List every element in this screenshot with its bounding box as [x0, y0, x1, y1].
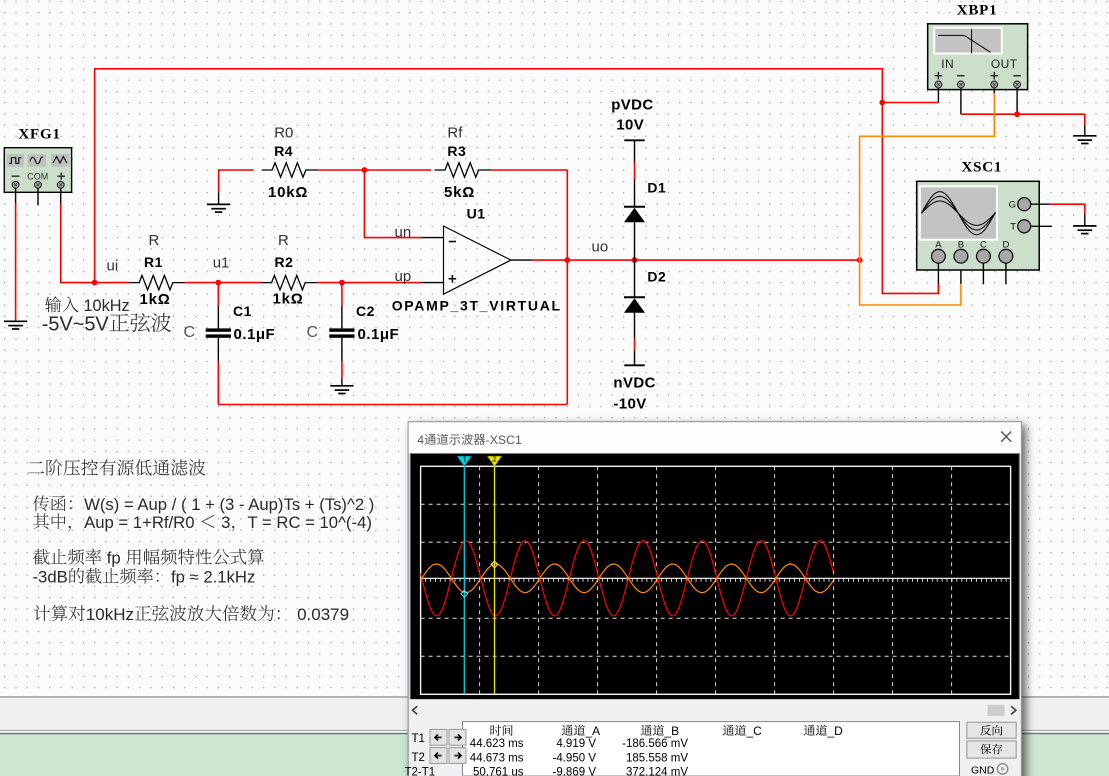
svg-text:fp: fp [107, 548, 121, 567]
wire XSC1 A lead [937, 263, 939, 284]
wire branch to XBP1 IN+ [882, 102, 938, 104]
wire node down to C2 [341, 283, 343, 306]
T1 right button [449, 729, 466, 745]
wire C2 ground stub [341, 378, 343, 386]
wire XFG1 COM stub [37, 188, 39, 205]
annotation: Aup condition line [33, 513, 71, 531]
XBP1 terminal IN- [958, 81, 965, 88]
scrollbar right arrow [1011, 706, 1016, 714]
svg-text:4: 4 [417, 433, 424, 447]
wire XSC1 C stub [982, 263, 984, 284]
wire XFG1 plus to node ui [61, 203, 95, 283]
capacitor C1 [206, 306, 231, 362]
window title bar [409, 422, 1021, 453]
svg-text:C: C [980, 239, 987, 250]
svg-text:-186.566 mV: -186.566 mV [622, 738, 688, 750]
status bar divider [0, 729, 1109, 731]
svg-text:0.1μF: 0.1μF [358, 326, 400, 343]
scope display area [410, 454, 1019, 700]
wire op-amp plus input lead [421, 282, 444, 284]
svg-text:G: G [1009, 200, 1016, 211]
svg-text:Rf: Rf [447, 124, 463, 141]
resistor R1 [129, 275, 185, 289]
wire XBP1 OUT+ lead [993, 88, 995, 93]
svg-text:_D: _D [827, 724, 844, 738]
svg-text:R0: R0 [274, 124, 293, 141]
wire pVDC to D1 [634, 162, 636, 179]
wire XSC1 D stub [1005, 263, 1007, 284]
svg-text:1kΩ: 1kΩ [140, 291, 171, 308]
window close button [1001, 432, 1011, 442]
svg-text:50.761 us: 50.761 us [473, 767, 524, 776]
svg-text:-5V~5V: -5V~5V [42, 314, 110, 336]
scrollbar thumb [988, 705, 1005, 716]
svg-text:T = RC = 10^(-4): T = RC = 10^(-4) [248, 513, 372, 532]
svg-text:R1: R1 [144, 254, 163, 270]
wire R3 to feedback column [491, 169, 568, 171]
svg-text:44.623 ms: 44.623 ms [470, 738, 524, 750]
svg-text:R4: R4 [274, 143, 293, 159]
button 反向 [967, 722, 1016, 738]
resistor R3 (Rf) [435, 163, 491, 177]
svg-text:IN: IN [941, 57, 954, 71]
wire node un to R3 [364, 169, 431, 171]
XSC1 terminal G [1018, 198, 1031, 211]
wire op-amp minus input lead [422, 237, 444, 239]
svg-text:185.558 mV: 185.558 mV [626, 753, 688, 765]
ground (XSC1 G) [1073, 226, 1096, 234]
wire R4 ground stub [218, 192, 220, 204]
function generator XFG1 [4, 148, 71, 193]
svg-text:372.124 mV: 372.124 mV [626, 767, 688, 776]
svg-text:u1: u1 [213, 254, 230, 271]
waveform channel A (red sine) [421, 541, 833, 616]
wire XFG1 minus lead [15, 188, 17, 203]
svg-text:10kHz: 10kHz [86, 605, 134, 624]
svg-text:up: up [395, 268, 412, 285]
svg-text:R2: R2 [275, 254, 294, 270]
svg-text:0.0379: 0.0379 [297, 605, 349, 624]
wire XBP1 ground stub [1084, 125, 1086, 136]
svg-text:T2: T2 [412, 752, 425, 764]
wire uo to XBP1 OUT+ and XSC1 channel B (orange) [860, 93, 995, 305]
column header 通道_A [562, 725, 585, 736]
wire node un to op-amp minus [364, 170, 421, 238]
svg-text:A: A [935, 239, 942, 250]
wire D1 cathode lead [634, 179, 636, 207]
oscilloscope XSC1 [917, 181, 1039, 270]
XBP1 terminal IN+ [935, 81, 942, 88]
wire XSC1 ground stub [1084, 215, 1086, 226]
scope graticule [421, 466, 1011, 694]
waveform channel B (orange sine) [421, 564, 833, 593]
svg-text:C: C [307, 324, 319, 341]
wire R4 left to ground [219, 170, 254, 192]
svg-text:_B: _B [664, 724, 680, 738]
svg-text:0.1μF: 0.1μF [234, 326, 276, 343]
XSC1 terminal D [999, 249, 1013, 263]
wire output to feedback column [532, 259, 568, 261]
annotation: gain at 10kHz line [34, 605, 85, 621]
wire D2 anode lead [634, 313, 636, 339]
XSC1 terminal C [977, 249, 991, 263]
wire XBP1 IN- lead [960, 88, 962, 114]
wire uo to diode node [567, 259, 634, 261]
svg-text:R3: R3 [447, 143, 466, 159]
wire XSC1 A to input net [937, 284, 939, 293]
svg-text:T: T [1010, 222, 1016, 233]
svg-text:Aup = 1+Rf/R0: Aup = 1+Rf/R0 [84, 513, 194, 532]
svg-text:XSC1: XSC1 [962, 159, 1003, 175]
annotation: input signal note line 1 [45, 296, 79, 312]
node XBP1 OUT- junction [1014, 111, 1020, 117]
T1 left button [430, 729, 447, 745]
svg-text:R: R [149, 232, 160, 249]
wire XSC1 G to ground [1049, 204, 1085, 215]
XFG1 terminal plus [57, 181, 64, 188]
svg-text:ui: ui [107, 258, 119, 275]
svg-text:GND: GND [971, 764, 995, 776]
readout values [470, 738, 689, 776]
svg-text:pVDC: pVDC [611, 96, 653, 113]
svg-text:1kΩ: 1kΩ [273, 291, 304, 308]
wire u1 to R2 [218, 282, 262, 284]
svg-text:4.919 V: 4.919 V [556, 738, 596, 750]
svg-text:C: C [184, 324, 196, 341]
svg-text:C2: C2 [356, 303, 375, 319]
column header 通道_C [723, 725, 746, 736]
capacitor C2 [329, 306, 354, 362]
svg-text:D2: D2 [647, 268, 666, 284]
svg-text:D1: D1 [647, 179, 666, 195]
wire XBP1 IN-/OUT- to ground [961, 113, 1085, 115]
annotation: transfer function line [33, 495, 72, 511]
XFG1 terminal COM [35, 181, 42, 188]
XFG1 terminal minus [12, 181, 19, 188]
svg-text:-XSC1: -XSC1 [486, 433, 522, 447]
svg-text:44.673 ms: 44.673 ms [470, 753, 524, 765]
DC source pVDC bar [624, 139, 644, 141]
svg-text:_A: _A [585, 724, 601, 738]
wire D1 anode to node [634, 222, 636, 260]
ground (C2) [330, 386, 353, 394]
svg-text:T2-T1: T2-T1 [405, 767, 436, 776]
spreadsheet view green band [0, 734, 1109, 776]
wire XFG1 plus lead [60, 188, 62, 203]
wire XSC1 B lead [960, 263, 962, 284]
svg-text:-10V: -10V [613, 396, 646, 413]
svg-text:W(s) = Aup / ( 1 + (3 - Aup)Ts: W(s) = Aup / ( 1 + (3 - Aup)Ts + (Ts)^2 … [84, 495, 374, 514]
scope scrollbar [409, 700, 1020, 719]
svg-text:uo: uo [592, 238, 609, 255]
svg-text:D: D [1002, 239, 1009, 250]
wire node to op-amp plus [342, 282, 421, 284]
XBP1 terminal OUT- [1014, 81, 1021, 88]
node up junction (C2) [339, 280, 345, 286]
cursor T2 (yellow) [487, 456, 501, 694]
annotation: cutoff frequency note [33, 549, 101, 565]
ground (R0/R4) [207, 204, 230, 212]
op-amp U1 [444, 226, 511, 294]
svg-text:XBP1: XBP1 [957, 3, 998, 19]
column header 通道_D [804, 725, 827, 736]
node at XBP1 IN+ branch [879, 100, 885, 106]
svg-text:10kΩ: 10kΩ [268, 184, 308, 201]
wire op-amp output lead [511, 259, 532, 261]
DC source nVDC bar [624, 364, 644, 366]
wire feedback right column [566, 170, 568, 405]
XBP1 terminal OUT+ [991, 81, 998, 88]
wire XSC1 T stub [1031, 225, 1052, 227]
wire uo to instruments [635, 259, 860, 261]
svg-text:10V: 10V [616, 116, 644, 133]
svg-text:C1: C1 [233, 303, 252, 319]
scrollbar left arrow [413, 706, 418, 714]
button 保存 [967, 741, 1016, 758]
node ui junction [92, 280, 98, 286]
diode D2 [624, 297, 645, 312]
svg-text:-4.950 V: -4.950 V [553, 753, 597, 765]
column header 时间 [491, 725, 513, 736]
readout panel [463, 722, 960, 776]
annotation: title 二阶压控有源低通滤波 [28, 459, 206, 475]
wire XBP1 IN+ lead [937, 88, 939, 103]
wire C1 to feedback bottom [217, 361, 219, 404]
svg-text:B: B [958, 239, 964, 250]
node diode junction [632, 257, 638, 263]
node un junction [362, 167, 368, 173]
svg-text:U1: U1 [467, 206, 486, 222]
svg-text:OUT: OUT [991, 57, 1018, 71]
wire node to D2 cathode [634, 260, 636, 297]
svg-text:COM: COM [27, 171, 48, 181]
wire XFG1 minus to ground [15, 203, 17, 321]
svg-text:nVDC: nVDC [613, 374, 655, 391]
resistor R2 [261, 275, 317, 289]
svg-text:_C: _C [746, 724, 763, 738]
wire pVDC lead [634, 140, 636, 162]
T2 left button [430, 748, 447, 764]
wire C2 to ground [341, 361, 343, 378]
svg-text:5kΩ: 5kΩ [444, 184, 475, 201]
wire down to XBP1 ground [1084, 114, 1086, 125]
node uo to XBP1/XSC1 [857, 257, 863, 263]
T2 right button [449, 748, 466, 764]
wire D2 to nVDC [634, 339, 636, 351]
wire XBP1 OUT- lead [1016, 88, 1018, 114]
wire ui to R1 [95, 282, 129, 284]
oscilloscope window 4通道示波器-XSC1 [408, 422, 1021, 776]
scope time axis [421, 578, 1011, 581]
svg-text:-3dB: -3dB [33, 567, 68, 586]
wire R2 to node up [317, 282, 342, 284]
svg-text:un: un [395, 224, 412, 241]
svg-text:10kHz: 10kHz [84, 297, 130, 315]
wire nVDC lead [634, 350, 636, 365]
svg-text:XFG1: XFG1 [18, 127, 60, 143]
svg-text:R: R [278, 232, 289, 249]
wire feedback bottom run [218, 404, 567, 406]
svg-text:3: 3 [221, 513, 230, 532]
XSC1 terminal A [932, 249, 946, 263]
schematic horizontal scrollbar band [0, 697, 1109, 729]
wire R1 to node u1 [185, 282, 219, 284]
svg-text:-9.869 V: -9.869 V [553, 767, 597, 776]
wire R4 to node un [318, 169, 365, 171]
svg-text:OPAMP_3T_VIRTUAL: OPAMP_3T_VIRTUAL [392, 297, 562, 313]
wire XSC1 G lead [1031, 203, 1049, 205]
svg-text:fp ≈ 2.1kHz: fp ≈ 2.1kHz [171, 567, 255, 586]
wire u1 down to C1 [217, 283, 219, 306]
svg-text:T1: T1 [412, 733, 425, 745]
resistor R4 (R0) [262, 163, 318, 177]
diode D1 [624, 207, 645, 222]
ground (XBP1) [1073, 136, 1096, 144]
column header 通道_B [641, 725, 664, 736]
node uo junction [564, 257, 570, 263]
ground (XFG1 minus) [4, 321, 27, 329]
wire node ui up and across to XSC1 channel A [95, 69, 939, 294]
XSC1 terminal B [954, 249, 968, 263]
bode plotter XBP1 [928, 24, 1028, 90]
GND radio [971, 764, 1008, 776]
XSC1 terminal T [1018, 220, 1031, 233]
node u1 junction [215, 280, 221, 286]
cursor T1 (cyan) [457, 456, 471, 694]
